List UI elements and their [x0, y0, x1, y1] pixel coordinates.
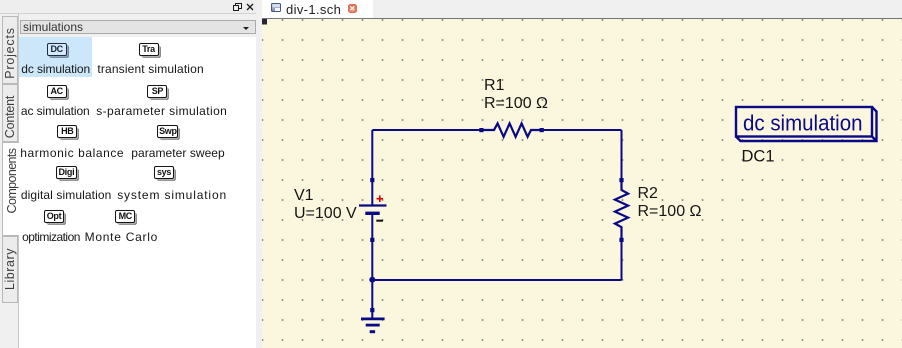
vertical tab strip [0, 14, 19, 348]
label optimization [22, 230, 80, 244]
combobox simulations [20, 20, 256, 34]
schematic canvas [262, 19, 902, 348]
close button [348, 4, 358, 13]
icon Digi [56, 166, 77, 179]
tab Library [2, 236, 18, 303]
dock title bar [0, 0, 256, 14]
voltage source V1 [359, 178, 387, 242]
minus sign [376, 220, 383, 222]
label harmonic balance [20, 146, 124, 160]
ground [361, 280, 385, 332]
wire left vertical lower (V1 bottom to junction) [371, 240, 373, 280]
icon MC [115, 210, 135, 223]
resistor R2 [615, 178, 628, 242]
svg-text:R=100 Ω: R=100 Ω [638, 203, 702, 220]
icon DC [47, 43, 67, 56]
page corner mark [262, 19, 267, 25]
float button [233, 3, 242, 11]
resistor R1 [479, 123, 544, 136]
label Monte Carlo [85, 230, 159, 244]
document tab bar [262, 0, 902, 18]
label system simulation [117, 188, 227, 202]
plus sign [377, 196, 384, 203]
svg-text:DC1: DC1 [742, 148, 775, 166]
icon AC [47, 85, 67, 98]
components panel [19, 14, 256, 348]
floppy icon [271, 3, 281, 13]
svg-text:V1: V1 [294, 187, 314, 204]
selected item highlight [19, 37, 92, 77]
dc simulation block DC1 [736, 107, 877, 141]
icon Tra [139, 43, 159, 56]
wire top horizontal right segment [542, 129, 622, 131]
svg-text:R=100 Ω: R=100 Ω [484, 95, 548, 112]
tab Content [2, 84, 18, 142]
wire top-left vertical (V1 top to corner) [371, 130, 373, 180]
svg-text:R2: R2 [638, 185, 659, 202]
label dc simulation [21, 62, 90, 76]
tab Components (selected) [2, 142, 20, 236]
label s-parameter simulation [96, 104, 227, 118]
tab bar bottom line [262, 18, 902, 19]
wire right vertical lower [621, 240, 623, 280]
icon Swp [157, 125, 178, 138]
wire right vertical upper [621, 130, 623, 180]
icon sys [154, 166, 174, 179]
label parameter sweep [131, 146, 224, 160]
label transient simulation [97, 62, 203, 76]
label digital simulation [21, 188, 112, 202]
icon Opt [44, 210, 64, 223]
label ac simulation [21, 104, 90, 118]
icon SP [147, 85, 167, 98]
svg-text:R1: R1 [484, 77, 505, 94]
icon HB [57, 125, 77, 138]
wire bottom horizontal [372, 279, 621, 281]
close button [246, 3, 254, 11]
tab Projects [2, 16, 18, 84]
wire top horizontal left segment [372, 129, 481, 131]
svg-text:dc simulation: dc simulation [743, 111, 863, 136]
splitter [256, 0, 262, 348]
svg-text:U=100 V: U=100 V [294, 205, 357, 222]
junction node [369, 277, 375, 283]
